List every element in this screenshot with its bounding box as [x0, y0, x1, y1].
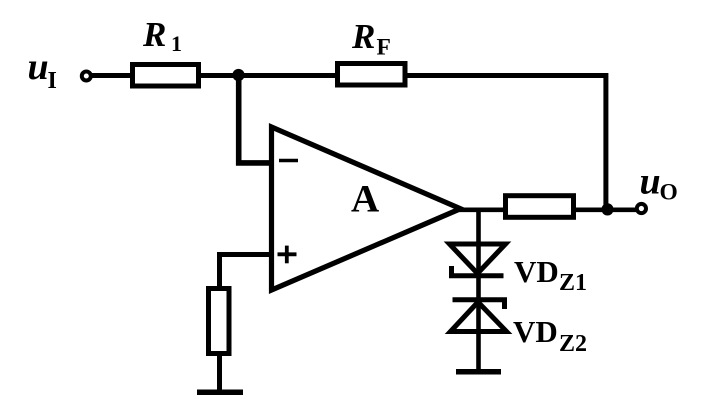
label R1	[142, 15, 182, 56]
svg-text:VD: VD	[514, 254, 559, 289]
label VD_Z1	[514, 254, 587, 296]
svg-text:F: F	[377, 35, 391, 61]
node (output)	[601, 203, 613, 215]
wire (non-inverting input)	[220, 255, 272, 288]
ground (left)	[197, 390, 243, 396]
wire	[92, 73, 133, 78]
label VD_Z2	[513, 314, 587, 357]
ground (right)	[456, 369, 501, 375]
wire	[613, 208, 636, 213]
wire (zener branch from output rail to ground)	[476, 210, 481, 370]
svg-text:u: u	[28, 46, 49, 88]
svg-text:1: 1	[171, 31, 182, 56]
wire (op-amp output)	[459, 208, 506, 213]
svg-text:Z2: Z2	[559, 331, 587, 357]
wire	[576, 208, 602, 213]
svg-text:VD: VD	[513, 314, 558, 349]
terminal u_I	[82, 72, 91, 81]
wire	[217, 356, 222, 391]
svg-text:R: R	[351, 17, 375, 56]
wire (node down and right to inverting input)	[239, 76, 272, 163]
label u_I	[28, 46, 57, 94]
resistor RF	[338, 64, 406, 86]
zener diode VD_Z1	[450, 244, 506, 276]
label u_O	[640, 161, 678, 206]
plus sign	[278, 246, 297, 264]
svg-text:A: A	[351, 178, 379, 221]
node (inverting input junction)	[232, 69, 244, 81]
svg-text:O: O	[660, 180, 678, 206]
terminal u_O	[637, 204, 646, 213]
op-amp A	[272, 127, 461, 290]
wire (feedback top rail and down to output node)	[405, 76, 606, 210]
svg-text:Z1: Z1	[559, 270, 587, 296]
resistor R2 (non-inverting to ground)	[209, 289, 230, 354]
svg-text:R: R	[142, 15, 166, 54]
minus sign	[279, 159, 298, 163]
label A	[351, 178, 379, 221]
label RF	[351, 17, 391, 61]
resistor R3 (output series)	[506, 196, 574, 218]
resistor R1	[133, 65, 199, 87]
zener diode VD_Z2	[451, 300, 507, 332]
svg-text:u: u	[640, 161, 661, 203]
wire	[201, 73, 335, 78]
svg-text:I: I	[48, 68, 57, 94]
